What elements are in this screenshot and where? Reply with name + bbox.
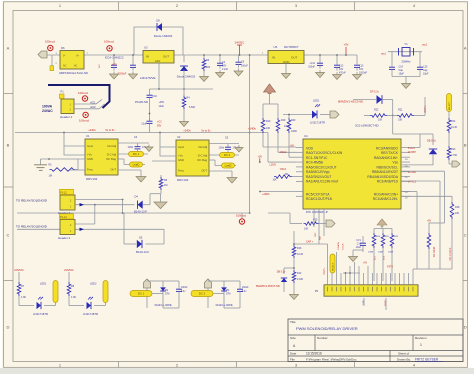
svg-text:R12: R12	[297, 272, 302, 275]
svg-text:Revision: Revision	[415, 336, 427, 340]
svg-text:AC: AC	[63, 65, 67, 68]
svg-text:10K: 10K	[266, 127, 271, 130]
svg-text:100R: 100R	[291, 130, 297, 133]
svg-text:8MAZ5V1-HGC3-ND: 8MAZ5V1-HGC3-ND	[338, 100, 363, 104]
svg-text:15 RB7: 15 RB7	[408, 151, 417, 154]
svg-text:10K: 10K	[273, 180, 278, 182]
svg-text:RA0/T1CK/OSC1/CLKIN: RA0/T1CK/OSC1/CLKIN	[306, 151, 343, 155]
svg-text:RB6/SCK/SCL: RB6/SCK/SCL	[377, 165, 399, 169]
svg-text:Input: Input	[87, 144, 93, 148]
svg-text:+Vs: +Vs	[178, 154, 183, 158]
svg-text:RB5/AN11/RX/DT: RB5/AN11/RX/DT	[372, 170, 398, 174]
svg-text:D-C Adj: D-C Adj	[198, 154, 208, 158]
svg-text:24VDC: 24VDC	[64, 268, 75, 272]
svg-text:10.2K: 10.2K	[451, 126, 458, 129]
svg-text:GND: GND	[178, 158, 184, 162]
svg-text:R22: R22	[374, 109, 379, 112]
svg-text:24V: 24V	[99, 64, 101, 68]
svg-text:B: B	[464, 143, 467, 148]
svg-text:I2C CLOCK: I2C CLOCK	[449, 247, 452, 260]
svg-text:RC6/C1OUT/P1B: RC6/C1OUT/P1B	[306, 197, 333, 201]
svg-text:R20: R20	[291, 119, 296, 122]
svg-text:U2: U2	[177, 135, 181, 139]
svg-text:LM1175/VE: LM1175/VE	[140, 76, 155, 80]
svg-text:24VDC: 24VDC	[235, 41, 246, 45]
svg-text:CAP +: CAP +	[323, 267, 326, 275]
svg-text:100uF: 100uF	[241, 65, 248, 68]
svg-text:Vss: Vss	[393, 161, 399, 165]
svg-text:100uF: 100uF	[242, 287, 249, 289]
svg-text:12Nb: 12Nb	[128, 147, 134, 149]
svg-text:osc2: osc2	[422, 44, 428, 47]
svg-text:TO RELAY/SOLENOID: TO RELAY/SOLENOID	[16, 199, 48, 203]
svg-text:Diode 2N4002: Diode 2N4002	[177, 75, 196, 79]
svg-text:P1-L3: P1-L3	[60, 216, 67, 219]
svg-text:2.70K: 2.70K	[451, 154, 458, 157]
svg-text:GND: GND	[283, 60, 289, 64]
svg-text:+5V: +5V	[343, 43, 348, 47]
svg-text:3/21-L69K08CT-ND: 3/21-L69K08CT-ND	[355, 124, 379, 128]
svg-text:10uF: 10uF	[159, 105, 165, 108]
svg-text:11/15/2016: 11/15/2016	[306, 352, 322, 356]
svg-text:MC7805CT: MC7805CT	[284, 45, 299, 49]
svg-text:RA0/AN0/C1IN+: RA0/AN0/C1IN+	[374, 156, 398, 160]
svg-text:AC: AC	[74, 65, 78, 68]
svg-text:OUT: OUT	[163, 55, 169, 59]
svg-text:8MAZ5V1-PDICT-ND: 8MAZ5V1-PDICT-ND	[256, 285, 280, 288]
svg-text:Freq: Freq	[87, 168, 93, 172]
svg-text:VDD: VDD	[306, 146, 314, 150]
svg-text:ECA-1HM222: ECA-1HM222	[105, 55, 124, 59]
svg-text:100R: 100R	[378, 252, 384, 254]
svg-text:RC1/AN5/C12IN-: RC1/AN5/C12IN-	[373, 197, 398, 201]
svg-text:220: 220	[206, 66, 211, 69]
svg-text:OSC: OSC	[315, 232, 317, 237]
svg-text:FSTS: FSTS	[387, 267, 393, 269]
svg-text:100mcd: 100mcd	[104, 40, 114, 44]
svg-text:B140-13-F: B140-13-F	[134, 210, 148, 214]
svg-text:U5: U5	[274, 45, 278, 49]
svg-text:100uF: 100uF	[308, 66, 315, 69]
svg-text:C: C	[464, 233, 467, 238]
svg-text:U3: U3	[144, 46, 148, 50]
svg-text:Del Adj: Del Adj	[198, 145, 207, 149]
svg-text:RB7/TX/CK: RB7/TX/CK	[381, 151, 399, 155]
svg-text:CAP +: CAP +	[306, 241, 314, 244]
svg-text:P1-L2: P1-L2	[60, 191, 67, 194]
svg-text:+5V: +5V	[363, 263, 368, 265]
svg-text:RA6/OSC2/CLKOUT: RA6/OSC2/CLKOUT	[306, 165, 337, 169]
svg-text:Header 2: Header 2	[58, 236, 71, 240]
svg-text:5v to 5v: 5v to 5v	[201, 129, 211, 133]
svg-text:OK Flag: OK Flag	[197, 158, 207, 162]
svg-text:V-: V-	[63, 55, 65, 58]
svg-text:5v to 5v: 5v to 5v	[105, 128, 115, 132]
svg-text:D5: D5	[139, 236, 143, 240]
svg-text:S-CLK: S-CLK	[343, 243, 345, 250]
svg-text:DC 1: DC 1	[138, 292, 145, 296]
svg-text:13uF: 13uF	[141, 123, 147, 126]
svg-text:+5V: +5V	[427, 220, 432, 223]
svg-text:GND: GND	[87, 157, 93, 161]
svg-text:R21: R21	[398, 109, 403, 112]
svg-text:Title: Title	[290, 320, 296, 324]
svg-text:SELECT: SELECT	[332, 262, 334, 271]
svg-text:OSC2: OSC2	[280, 151, 287, 154]
svg-text:Sheet of: Sheet of	[398, 352, 409, 356]
svg-text:LED1: LED1	[40, 282, 47, 286]
svg-text:+Vs: +Vs	[87, 153, 92, 157]
svg-text:File: File	[290, 358, 295, 362]
svg-text:Diode 1N4002: Diode 1N4002	[154, 34, 173, 38]
svg-text:P9: P9	[315, 289, 319, 293]
svg-text:1M: 1M	[49, 175, 52, 178]
svg-text:LeaD: LeaD	[133, 163, 140, 167]
svg-text:RC5/CCP1/P1A: RC5/CCP1/P1A	[306, 193, 330, 197]
svg-text:2200uF: 2200uF	[118, 72, 127, 76]
svg-text:OUT: OUT	[201, 169, 207, 173]
svg-text:Input: Input	[178, 145, 184, 149]
svg-text:33143-L-00PE: 33143-L-00PE	[215, 303, 233, 307]
svg-text:100R: 100R	[388, 252, 394, 254]
svg-text:F:\Program Files\..\RelayDRV.S: F:\Program Files\..\RelayDRV.SchDoc	[306, 358, 357, 362]
svg-text:100mcd: 100mcd	[45, 40, 55, 44]
svg-text:OSC1: OSC1	[280, 168, 287, 171]
svg-text:RB4/AN10/SD1/SDA: RB4/AN10/SD1/SDA	[367, 175, 398, 179]
svg-text:R13: R13	[451, 148, 456, 151]
svg-text:Del Adj: Del Adj	[107, 144, 116, 148]
svg-text:10K: 10K	[304, 228, 309, 231]
svg-text:Drawn By:: Drawn By:	[397, 358, 411, 362]
svg-text:RC1-SN7/P1C: RC1-SN7/P1C	[306, 156, 328, 160]
svg-text:470uF: 470uF	[339, 72, 346, 75]
svg-text:LeaD: LeaD	[225, 164, 232, 168]
svg-text:D6: D6	[61, 46, 65, 50]
svg-text:A: A	[7, 46, 10, 51]
svg-text:100mcd: 100mcd	[236, 214, 246, 218]
svg-text:LN21718TR: LN21718TR	[33, 312, 48, 316]
svg-text:IN: IN	[146, 55, 149, 59]
svg-text:DC 2: DC 2	[224, 153, 231, 157]
svg-text:1: 1	[420, 343, 422, 347]
svg-text:U1: U1	[86, 134, 90, 138]
svg-text:33143-L-00PE: 33143-L-00PE	[154, 303, 172, 307]
svg-text:D-C Adj: D-C Adj	[107, 153, 117, 157]
svg-text:D8: D8	[156, 19, 160, 23]
svg-text:100mcd: 100mcd	[79, 119, 89, 123]
svg-text:C10: C10	[153, 95, 158, 98]
svg-text:24VAC: 24VAC	[42, 109, 53, 113]
svg-text:+24Db: +24Db	[248, 127, 256, 131]
svg-text:B140-13-F: B140-13-F	[136, 250, 150, 254]
svg-text:TO RELAY/SOLENOID: TO RELAY/SOLENOID	[16, 225, 48, 229]
svg-text:1.6K: 1.6K	[21, 296, 26, 299]
svg-text:37M: 37M	[226, 294, 231, 296]
svg-text:DP 5.2v: DP 5.2v	[370, 91, 380, 94]
svg-text:100R: 100R	[368, 252, 374, 254]
svg-text:R10: R10	[266, 120, 271, 123]
svg-text:Number: Number	[317, 336, 328, 340]
svg-text:D: D	[464, 325, 467, 330]
svg-text:+24Dv: +24Dv	[88, 128, 96, 132]
svg-text:+C3: +C3	[157, 120, 162, 123]
svg-text:I2C DATA: I2C DATA	[433, 246, 436, 257]
svg-text:RC3/AN9/SDO: RC3/AN9/SDO	[376, 146, 398, 150]
svg-text:C: C	[7, 233, 10, 238]
svg-text:R14: R14	[451, 120, 456, 123]
svg-text:LED1: LED1	[313, 99, 320, 103]
svg-text:LED2: LED2	[90, 282, 97, 286]
svg-text:LN21718TR: LN21718TR	[310, 121, 325, 125]
svg-text:100mcd: 100mcd	[78, 91, 88, 95]
svg-text:15pF: 15pF	[399, 73, 405, 76]
svg-text:D4: D4	[135, 195, 139, 199]
svg-text:GBPC600-E4-51GI-ND: GBPC600-E4-51GI-ND	[59, 71, 88, 75]
svg-text:+C1: +C1	[112, 63, 117, 66]
svg-text:P1: P1	[61, 90, 65, 94]
svg-text:2.40K: 2.40K	[297, 278, 304, 281]
svg-text:+45V: +45V	[159, 101, 165, 104]
svg-text:U4: U4	[304, 134, 308, 138]
svg-text:LN21718TR: LN21718TR	[83, 312, 98, 316]
svg-text:10K: 10K	[455, 212, 460, 215]
svg-text:R19: R19	[281, 119, 286, 122]
svg-text:Header 2: Header 2	[60, 115, 73, 119]
svg-text:DB 5.2v: DB 5.2v	[427, 140, 437, 143]
svg-text:10K: 10K	[398, 119, 403, 122]
svg-text:D: D	[7, 325, 10, 330]
svg-text:12Nb: 12Nb	[219, 147, 225, 149]
svg-text:RA2/SN2/LVOUT: RA2/SN2/LVOUT	[306, 175, 331, 179]
svg-text:osc1: osc1	[381, 53, 387, 56]
svg-text:DRV103: DRV103	[86, 177, 98, 181]
svg-text:1M: 1M	[164, 184, 167, 187]
svg-text:RC2/AN6/P1D: RC2/AN6/P1D	[377, 180, 399, 184]
svg-text:10uF: 10uF	[356, 247, 362, 249]
svg-text:RA1/AN1/C12IN-/Vref: RA1/AN1/C12IN-/Vref	[306, 180, 338, 184]
svg-text:100uF: 100uF	[181, 287, 188, 289]
svg-text:Y1: Y1	[404, 42, 408, 46]
svg-text:FRITZ GEYSER: FRITZ GEYSER	[415, 358, 439, 362]
svg-text:+5V: +5V	[258, 156, 263, 159]
svg-text:PWM SOLENOID/RELAY DRIVER: PWM SOLENOID/RELAY DRIVER	[296, 326, 358, 331]
svg-text:Date: Date	[290, 352, 297, 356]
svg-text:CAP +: CAP +	[424, 105, 427, 113]
svg-text:OUT: OUT	[291, 56, 298, 60]
svg-text:+22Db: +22Db	[262, 193, 270, 196]
svg-text:DC 2: DC 2	[199, 292, 206, 296]
svg-text:ADJ: ADJ	[155, 59, 161, 63]
svg-text:S-DATA: S-DATA	[337, 242, 340, 250]
svg-text:PIC 16F690C-P: PIC 16F690C-P	[306, 210, 328, 214]
svg-text:B: B	[7, 143, 10, 148]
svg-text:24VDC: 24VDC	[14, 268, 25, 272]
svg-text:R16: R16	[297, 247, 302, 250]
svg-text:5.62K: 5.62K	[189, 106, 196, 109]
svg-text:DC 1: DC 1	[133, 152, 140, 156]
svg-text:10.2K: 10.2K	[297, 253, 304, 256]
svg-text:R18: R18	[455, 206, 460, 209]
svg-text:55V: 55V	[157, 124, 162, 127]
svg-text:DB 5.2v: DB 5.2v	[277, 271, 286, 274]
svg-text:20MHz: 20MHz	[401, 60, 411, 64]
svg-text:15pF: 15pF	[423, 73, 429, 76]
svg-text:A: A	[464, 46, 467, 51]
svg-text:L2DN: L2DN	[270, 164, 277, 167]
svg-text:1.6K: 1.6K	[71, 296, 76, 299]
svg-text:100R: 100R	[284, 125, 290, 128]
svg-text:C16: C16	[357, 244, 362, 246]
svg-text:Freq: Freq	[178, 169, 184, 173]
svg-text:2.2uF: 2.2uF	[222, 68, 229, 71]
svg-text:RC4-RM5B: RC4-RM5B	[306, 161, 324, 165]
svg-text:1000uF: 1000uF	[359, 72, 368, 75]
svg-text:IN: IN	[272, 56, 275, 60]
svg-text:OUT: OUT	[110, 168, 116, 172]
svg-text:SELECT: SELECT	[449, 101, 451, 110]
svg-text:DRV103: DRV103	[177, 178, 189, 182]
svg-text:P0100-ND: P0100-ND	[135, 100, 148, 104]
svg-text:10K: 10K	[378, 119, 383, 122]
svg-text:OK Flag: OK Flag	[106, 157, 116, 161]
svg-text:RC0/AN4/C2IN+: RC0/AN4/C2IN+	[374, 193, 398, 197]
svg-text:Size: Size	[290, 336, 296, 340]
svg-text:RA5/MCLR/Vpp: RA5/MCLR/Vpp	[306, 170, 330, 174]
svg-text:37M: 37M	[165, 294, 170, 296]
svg-text:0.1V: 0.1V	[356, 240, 361, 242]
svg-text:+24Dv: +24Dv	[183, 129, 191, 133]
